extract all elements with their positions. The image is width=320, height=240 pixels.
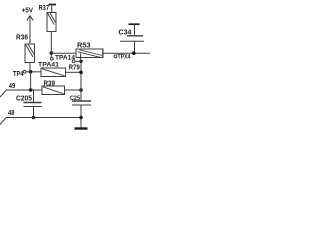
pin 48 entry wire: [0, 118, 81, 125]
junction R37 / R53: [50, 51, 54, 55]
wire R36 bottom to node A: [29, 63, 31, 73]
junction W1 / 49 line: [79, 88, 83, 92]
wire TP4 to R79: [26, 71, 41, 73]
capacitor C25: [72, 101, 91, 105]
wire junction to R53: [51, 52, 76, 54]
wire bar to R37: [51, 5, 53, 13]
junction C205 / 48 line: [32, 116, 36, 120]
node A junction: [29, 70, 33, 74]
ground: [75, 127, 88, 129]
svg-text:R39: R39: [44, 81, 56, 88]
svg-text:49: 49: [9, 83, 16, 90]
power arrow: [27, 16, 33, 21]
resistor R36: [25, 44, 35, 63]
svg-text:R36: R36: [16, 35, 28, 42]
junction W1 top: [79, 60, 82, 63]
test point TPX4: [114, 54, 131, 61]
capacitor C34: [120, 24, 144, 53]
test point TPA41 circle: [72, 60, 81, 63]
wire R39 right to W1: [65, 89, 82, 91]
wire R53 right to edge: [103, 52, 150, 54]
svg-text:TPA41: TPA41: [38, 62, 59, 69]
resistor R37: [47, 13, 56, 32]
resistor R79: [41, 68, 66, 77]
resistor R53: [76, 49, 103, 58]
resistor R39: [42, 86, 65, 95]
svg-text:C205: C205: [16, 96, 32, 103]
svg-text:R79: R79: [69, 65, 80, 72]
svg-text:+5V: +5V: [22, 8, 34, 15]
junction W1 R79: [79, 71, 83, 75]
wire R79 right to W1: [66, 71, 82, 73]
svg-text:TP4: TP4: [13, 71, 24, 78]
junction C34 / line: [132, 51, 136, 55]
svg-text:R53: R53: [77, 43, 91, 50]
wire R37 to junction: [50, 32, 52, 54]
test point TPA14: [51, 53, 76, 62]
svg-text:C34: C34: [119, 30, 132, 37]
svg-text:48: 48: [8, 110, 15, 117]
capacitor C205: [24, 90, 42, 118]
pin 49 entry wire: [0, 90, 42, 97]
wire +5V arrow to R36: [29, 16, 31, 44]
test point TP4: [13, 70, 26, 78]
svg-text:C25: C25: [70, 95, 80, 102]
wire node A down to 49 line: [30, 72, 32, 90]
junction node A / 49 line: [29, 88, 33, 92]
wire R53 bottom stub to W1 junction: [80, 53, 82, 61]
wire W1 vertical: [80, 61, 82, 127]
svg-text:R37: R37: [39, 5, 50, 12]
power bar R37: [49, 4, 57, 6]
svg-text:TPX4: TPX4: [118, 54, 131, 61]
junction W1 48 line: [79, 116, 83, 120]
